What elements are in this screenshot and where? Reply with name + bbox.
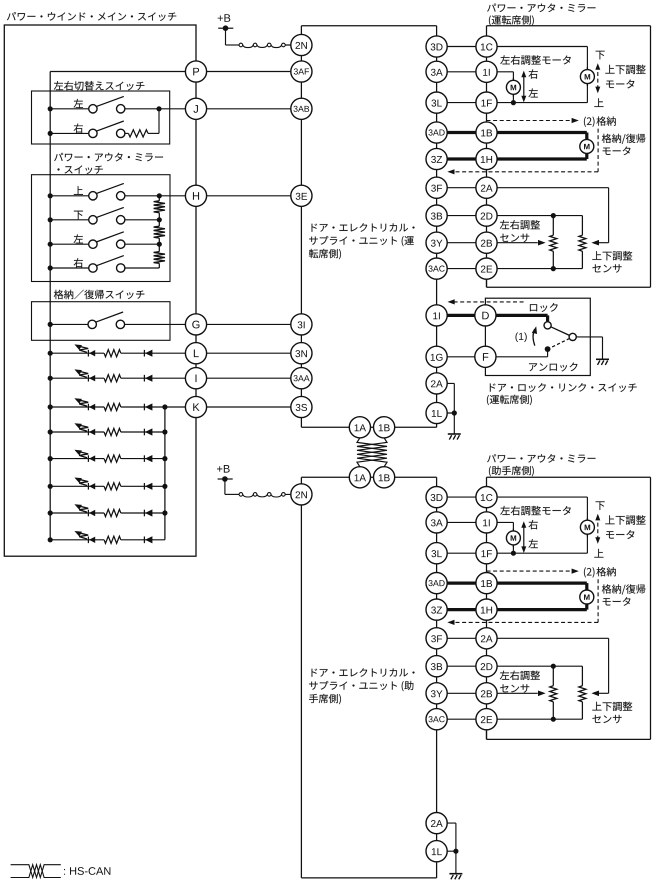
HS-CAN legend text [64,867,110,875]
ground [596,358,609,360]
supply loop around mirror [487,476,651,478]
connector pin 3L [426,92,447,113]
switch row: selector-right with resistor [74,124,83,133]
dashed arrow to lock row [454,301,526,303]
left-right adjust motor [512,78,514,81]
connector pin 1I [476,512,497,533]
connector pin 1I [476,61,497,82]
diode arrow [143,375,145,382]
connector pin 3AB [291,98,312,119]
inner box: retract/return switch [54,290,145,300]
wire 1G to F [437,356,486,358]
wire 3D-1C [437,496,487,498]
wire 1L to ground node [437,412,455,414]
unit label driver side [311,223,414,232]
connector pin 3F [426,177,447,198]
supply loop around mirror [487,25,651,27]
connector pin 2D [476,205,497,226]
connector pin 1H [476,148,497,169]
connector pin 1F [476,543,497,564]
label up-down adjust motor [605,65,645,75]
dashed arrow (2) retract [487,120,575,122]
wire 1C to up-down motor [487,496,588,498]
connector pin 1G [426,346,447,367]
wire 3A-1I [437,71,487,73]
left-right adjust motor [512,529,514,532]
wire 3Y-2B [437,242,487,244]
wire 3Y-2B [437,692,487,694]
switch row: selector-left [74,99,83,108]
diode arrow [143,350,145,357]
connector pin D [475,305,496,326]
connector pin 3AC [426,258,447,279]
connector pin 3AF [291,61,312,82]
connector pin 1B [374,467,395,488]
mirror connector column [486,26,488,288]
connector pin 3Z [426,599,447,620]
label up-down adjust motor [605,515,645,525]
connector pin 3Z [426,148,447,169]
connector pin 1F [476,92,497,113]
left-right adjust sensor resistor [552,666,554,686]
wire G-3I [196,323,301,325]
LED [87,404,89,411]
LED [87,510,89,517]
up-down adjust sensor resistor [581,666,583,686]
connector pin 1A [349,467,370,488]
dashed direction arrow up-down [597,516,599,542]
LED [87,375,89,382]
wire 3B-2D [437,215,487,217]
label left-right adjust motor [500,506,571,516]
wire 3B-2D [437,665,487,667]
LED [87,350,89,357]
label left-right adjust sensor [500,220,540,229]
wire 2E to sensors [487,268,583,270]
LED indicator row 4 [50,431,104,433]
diode arrow [143,429,145,436]
diode arrow [143,455,145,462]
wire from +B [225,28,227,45]
wire K-3S [196,406,301,408]
door lock link switch box [485,298,590,375]
LED indicator row 5 [50,458,104,460]
label lock [530,303,558,312]
unlock contact node [545,346,551,352]
dashed return path [451,129,599,172]
thick wire 3Z-1H [437,608,487,611]
connector pin 3A [426,512,447,533]
mirror connector column [486,477,488,739]
label down [596,51,605,60]
connector pin 2N [291,484,312,505]
wire 1F row [487,552,588,554]
label unlock [529,362,577,371]
resistor [128,130,148,137]
connector pin 3N [291,343,312,364]
wire 2E return to loop [486,719,488,739]
unit label passenger side [311,668,414,677]
left-right adjust sensor resistor [552,216,554,236]
connector pin 2E [476,258,497,279]
connector pin I [185,368,206,389]
connector pin 1B [476,573,497,594]
retract/return motor thick wiring [487,581,587,584]
thick wire 3Z-1H [437,157,487,160]
wire 3L-1F [437,102,487,104]
label retract/return motor [602,134,645,144]
thick wire 3AD-1B [437,131,487,134]
connector pin 3AD [426,122,447,143]
+B node [218,27,233,29]
thick wire 1I to D [437,314,486,317]
wire 2E return to loop [486,269,488,288]
switch row: retract/return [50,323,92,325]
+B node [218,478,233,480]
wire J-3AB [196,108,301,110]
connector pin 2E [476,709,497,730]
wire motor to 1F row [512,94,514,102]
connector pin 1A [349,417,370,438]
label down [596,501,605,510]
connector pin 1C [476,487,497,508]
LED indicator row 1 [50,352,104,354]
wire 2B arrow to left-right sensor [487,692,538,694]
wire: P feed from bus [50,71,196,73]
wire: internal bus vertical [49,72,51,540]
wire F to unlock contact [485,356,547,358]
wire 3AC-2E [437,718,487,720]
connector pin K [185,396,206,417]
coil symbol (circuit breaker) [239,493,243,497]
connector pin 3AC [426,709,447,730]
LED [87,429,89,436]
label up [594,98,603,107]
label left-right adjust sensor [500,671,540,680]
label (2) retract [584,117,595,127]
connector pin 3AA [291,368,312,389]
connector pin 3D [426,487,447,508]
ground [449,873,462,875]
label retract/return motor [602,584,645,594]
ground [448,433,461,435]
wire 2E to sensors [487,718,583,720]
label left-right adjust motor [500,55,571,65]
wire 1F row [487,102,588,104]
connector pin 3B [426,205,447,226]
connector pin 2A [426,373,447,394]
connector pin 3S [291,396,312,417]
up-down adjust sensor resistor [581,216,583,236]
LED [87,537,89,544]
up-down adjust motor [586,67,588,70]
door electrical supply unit (driver side) box outline [300,26,302,428]
wire P-3AF [196,71,301,73]
wire: LED common vertical [164,407,166,540]
wire 2A to ground (passenger unit) [437,822,456,824]
HS-CAN legend twisted pair symbol [11,865,61,878]
connector pin G [185,314,206,335]
label up [594,549,603,558]
connector pin 2A [476,177,497,198]
+B supply label [217,465,230,473]
retract/return motor [585,588,588,591]
wire 2D to sensors [487,665,583,667]
wire 2A to up-down sensor [487,637,609,639]
wire 3D-1C [437,46,487,48]
diode arrow [143,483,145,490]
switch blade solid [551,327,570,336]
connector pin J [185,98,206,119]
wire 2B arrow to left-right sensor [487,242,538,244]
diode arrow [143,537,145,544]
switch row: mirror-下 [74,211,83,220]
label up-down adjust sensor [592,251,632,260]
connector pin 1C [476,36,497,57]
diode arrow [143,510,145,517]
inner box: left-right selector switch [54,81,145,90]
connector pin 3Y [426,232,447,253]
wire 2A to up-down sensor [487,187,609,189]
connector pin 3D [426,36,447,57]
direction arrow right/left [523,523,525,551]
connector pin 3E [291,185,312,206]
wire 1L to ground node lower [437,850,456,852]
connector pin L [185,343,206,364]
wire 2A to ground (driver unit) [437,382,455,384]
wire motor to 1F row [512,545,514,553]
connector pin 3F [426,628,447,649]
wire 1I to left-right motor [487,71,514,73]
connector pin 2B [476,232,497,253]
connector pin 3AD [426,573,447,594]
wire L-3N [196,352,301,354]
resistor chain of mirror switch [158,196,160,201]
coil symbol (circuit breaker) [239,43,243,47]
direction arrow right/left [523,73,525,101]
+B supply label [218,14,231,22]
label (2) retract [584,567,595,577]
dashed direction arrow up-down [597,65,599,91]
wire 3A-1I [437,521,487,523]
connector pin 1I [426,305,447,326]
LED indicator row 7 [50,512,104,514]
door electrical supply unit (passenger side) box outline [300,477,302,878]
mirror title (driver) [487,3,595,12]
connector pin 3L [426,543,447,564]
connector pin 2A [426,813,447,834]
switch row: mirror-左 [74,234,83,243]
thick wire 3AD-1B [437,581,487,584]
label up-down adjust sensor [592,702,632,711]
lock switch wiring [485,314,547,317]
twisted pair HS-CAN [357,438,387,467]
LED [87,483,89,490]
LED indicator row 8 [50,539,104,541]
switch blade dashed to unlock [550,338,570,348]
connector pin 2B [476,683,497,704]
connector pin 1H [476,599,497,620]
connector pin F [475,346,496,367]
connector pin 1B [374,417,395,438]
wire I-3AA [196,377,301,379]
wire 3F-2A [437,637,487,639]
wire 1C to up-down motor [487,46,588,48]
connector pin 1B [476,122,497,143]
wire 3L-1F [437,552,487,554]
wire 2D to sensors [487,215,583,217]
wire 3AC-2E [437,268,487,270]
wire common to ground [576,336,602,338]
wire from +B [224,479,226,494]
label door lock link switch [490,383,637,392]
label: power window main switch title [7,12,176,21]
power window main switch box [4,25,196,556]
LED indicator row 6 [50,485,104,487]
action arrow (1) [515,332,526,342]
retract/return motor thick wiring [487,131,587,134]
connector pin 3B [426,656,447,677]
connector pin 2D [476,656,497,677]
connector pin 3Y [426,683,447,704]
wire 3F-2A [437,187,487,189]
connector pin 1L [426,841,447,862]
LED [87,455,89,462]
connector pin 1L [426,402,447,423]
wire H-3E [196,195,301,197]
retract/return motor [585,137,588,140]
switch row: mirror-上 [74,186,83,195]
connector pin H [185,185,206,206]
dashed arrow (2) retract [487,570,575,572]
inner box: power outer mirror switch [54,153,163,162]
connector pin 2A [476,628,497,649]
LED indicator row 3 [50,406,104,408]
switch row: mirror-右 [74,258,83,267]
up-down adjust motor [586,518,588,521]
connector pin 3A [426,61,447,82]
connector pin 3I [291,314,312,335]
mirror title (passenger) [487,454,595,463]
LED indicator row 2 [50,377,104,379]
connector pin 2N [291,34,312,55]
connector pin P [185,61,206,82]
diode arrow [143,404,145,411]
dashed return path [451,579,599,622]
wire 1I to left-right motor [487,521,514,523]
